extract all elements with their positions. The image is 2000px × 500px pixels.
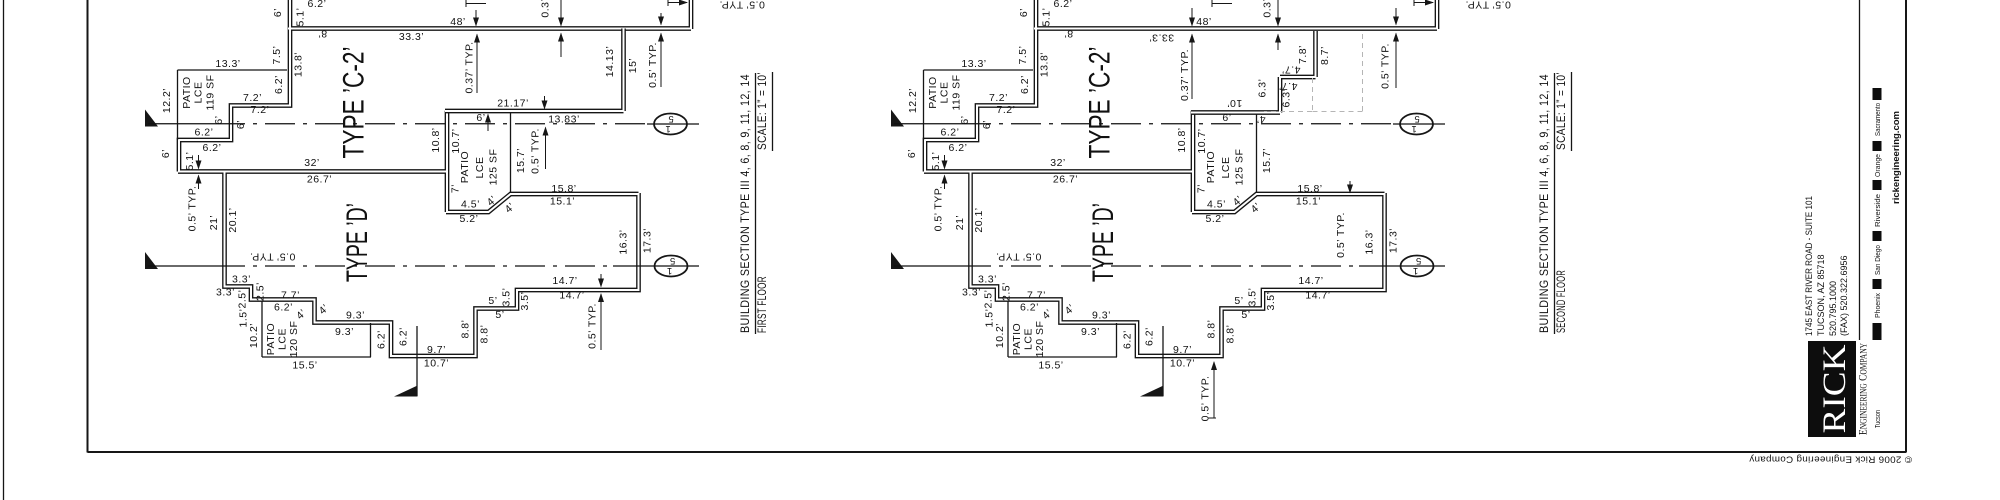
- svg-text:8’: 8’: [318, 27, 327, 39]
- drawing frame bottom border: [88, 451, 1907, 453]
- svg-text:4.5’: 4.5’: [461, 199, 480, 211]
- cities strip: [1873, 88, 1882, 100]
- inner box wall (first floor): [445, 29, 624, 112]
- svg-text:33.3’: 33.3’: [399, 31, 424, 43]
- second floor plan copy: [891, 0, 1511, 396]
- svg-text:0.37’: 0.37’: [1262, 0, 1274, 18]
- svg-text:32’: 32’: [304, 157, 320, 169]
- section bubble 5/1 (D): [655, 256, 688, 277]
- svg-text:520.795.1000: 520.795.1000: [1828, 281, 1838, 336]
- svg-text:10.8’: 10.8’: [430, 127, 442, 152]
- svg-text:48’: 48’: [450, 16, 466, 28]
- svg-text:10.2’: 10.2’: [248, 323, 260, 348]
- svg-text:6.2’: 6.2’: [376, 330, 388, 349]
- svg-text:0.5’ TYP.: 0.5’ TYP.: [1200, 376, 1212, 422]
- svg-text:15.8’: 15.8’: [551, 183, 576, 195]
- svg-text:15.5’: 15.5’: [292, 360, 317, 372]
- svg-text:9.3’: 9.3’: [346, 310, 365, 322]
- svg-text:6.2’: 6.2’: [195, 127, 214, 139]
- svg-text:4’: 4’: [1256, 113, 1265, 125]
- svg-text:LCE: LCE: [474, 157, 486, 179]
- svg-text:6.3’: 6.3’: [1281, 89, 1293, 108]
- second floor title: [1539, 72, 1572, 334]
- svg-text:13.83’: 13.83’: [548, 114, 580, 126]
- svg-text:Sacramento: Sacramento: [1873, 103, 1882, 136]
- drawing frame right border / title block edge: [1905, 0, 1907, 453]
- svg-text:7’: 7’: [450, 184, 462, 193]
- svg-text:0.37’ TYP.: 0.37’ TYP.: [464, 41, 476, 93]
- svg-text:5’: 5’: [495, 309, 504, 321]
- svg-text:Tucson: Tucson: [1873, 410, 1882, 428]
- section bubble 5/1 (C-2): [654, 114, 687, 135]
- svg-text:Orange: Orange: [1873, 154, 1882, 177]
- svg-text:15.1’: 15.1’: [550, 196, 575, 208]
- svg-text:© 2006 Rick Engineering Com: © 2006 Rick Engineering Company: [1749, 454, 1912, 465]
- top-right mini dim: [667, 0, 669, 6]
- svg-text:0.5’ TYP.: 0.5’ TYP.: [1335, 212, 1347, 258]
- svg-text:119 SF: 119 SF: [205, 74, 217, 110]
- drawing frame left border: [87, 0, 89, 453]
- svg-text:3.3’: 3.3’: [216, 287, 235, 299]
- centerline D: [145, 252, 158, 269]
- svg-text:TYPE ’C-2’: TYPE ’C-2’: [338, 47, 371, 159]
- svg-text:0.5’ TYP.: 0.5’ TYP.: [719, 0, 765, 10]
- svg-text:SCALE: 1” = 10’: SCALE: 1” = 10’: [1556, 72, 1568, 150]
- svg-text:6.2’: 6.2’: [274, 302, 293, 314]
- svg-text:0.5’ TYP.: 0.5’ TYP.: [647, 42, 659, 88]
- svg-text:FIRST FLOOR: FIRST FLOOR: [757, 276, 769, 333]
- svg-text:20.1’: 20.1’: [227, 207, 239, 232]
- svg-text:SCALE: 1” = 10’: SCALE: 1” = 10’: [757, 72, 769, 150]
- svg-text:0.5’ TYP.: 0.5’ TYP.: [530, 128, 542, 174]
- section cut line bottom with triangle: [416, 326, 418, 396]
- svg-text:3.3’: 3.3’: [232, 274, 251, 286]
- second floor stepped wall: [1191, 31, 1316, 113]
- svg-text:8.8’: 8.8’: [460, 320, 472, 339]
- svg-text:7.5’: 7.5’: [271, 46, 283, 65]
- building walls: [178, 0, 691, 356]
- svg-text:9.7’: 9.7’: [427, 344, 446, 356]
- svg-text:PATIO: PATIO: [265, 323, 277, 355]
- svg-text:15’: 15’: [627, 58, 639, 74]
- svg-text:13.8’: 13.8’: [293, 52, 305, 77]
- svg-text:6’: 6’: [476, 112, 485, 124]
- svg-text:13.3’: 13.3’: [215, 58, 240, 70]
- svg-text:6.2’: 6.2’: [398, 327, 410, 346]
- svg-text:33.3’: 33.3’: [1149, 31, 1174, 43]
- svg-text:8.8’: 8.8’: [479, 325, 491, 344]
- svg-text:PATIO: PATIO: [181, 76, 193, 108]
- svg-text:2.5’: 2.5’: [237, 290, 249, 309]
- svg-text:10.7’: 10.7’: [450, 128, 462, 153]
- svg-text:Riverside: Riverside: [1873, 194, 1882, 227]
- svg-text:7.2’: 7.2’: [243, 92, 262, 104]
- svg-text:14.7’: 14.7’: [552, 275, 577, 287]
- svg-text:6’: 6’: [272, 8, 284, 17]
- svg-text:17.3’: 17.3’: [642, 228, 654, 253]
- svg-text:8.7’: 8.7’: [1319, 46, 1331, 65]
- svg-text:PATIO: PATIO: [459, 151, 471, 183]
- svg-text:125 SF: 125 SF: [488, 149, 500, 186]
- first floor title: [740, 72, 773, 334]
- svg-text:3.5’: 3.5’: [501, 288, 513, 307]
- patio 120 SF boundary: [262, 302, 371, 358]
- svg-text:TYPE ’D’: TYPE ’D’: [341, 203, 374, 282]
- svg-text:9.3’: 9.3’: [335, 326, 354, 338]
- svg-text:0.5’ TYP.: 0.5’ TYP.: [587, 303, 599, 349]
- patio 119 SF boundary: [178, 70, 288, 140]
- svg-text:14.7’: 14.7’: [559, 290, 584, 302]
- svg-text:120 SF: 120 SF: [288, 321, 300, 358]
- svg-text:12.2’: 12.2’: [161, 88, 173, 113]
- svg-text:(FAX) 520.322.6956: (FAX) 520.322.6956: [1839, 255, 1849, 336]
- svg-text:SECOND FLOOR: SECOND FLOOR: [1556, 270, 1568, 333]
- svg-text:10’: 10’: [1227, 97, 1243, 109]
- svg-text:BUILDING SECTION TYPE III 4, 6: BUILDING SECTION TYPE III 4, 6, 8, 9, 11…: [1539, 74, 1551, 333]
- svg-text:San Diego: San Diego: [1873, 245, 1882, 275]
- svg-text:6.2’: 6.2’: [203, 142, 222, 154]
- svg-text:LCE: LCE: [277, 328, 289, 350]
- svg-text:LCE: LCE: [193, 82, 205, 104]
- svg-text:7.2’: 7.2’: [251, 104, 270, 116]
- svg-text:6’: 6’: [213, 115, 225, 124]
- svg-text:5.1’: 5.1’: [184, 152, 196, 171]
- svg-text:BUILDING SECTION TYPE III 4, 6: BUILDING SECTION TYPE III 4, 6, 8, 9, 11…: [740, 74, 752, 333]
- svg-text:2.5’: 2.5’: [255, 282, 267, 301]
- svg-text:6.2’: 6.2’: [273, 75, 285, 94]
- svg-text:16.3’: 16.3’: [618, 229, 630, 254]
- svg-text:14.13’: 14.13’: [604, 46, 616, 78]
- svg-text:10.7’: 10.7’: [424, 358, 449, 370]
- svg-text:6’: 6’: [235, 120, 247, 129]
- title block inner divider: [1859, 0, 1861, 340]
- svg-text:6.3’: 6.3’: [1257, 79, 1269, 98]
- svg-text:21.17’: 21.17’: [497, 98, 529, 110]
- demolished/overlay dashed outline: [1264, 34, 1363, 112]
- svg-text:5.2’: 5.2’: [460, 213, 479, 225]
- svg-text:26.7’: 26.7’: [307, 174, 332, 186]
- svg-text:6’: 6’: [160, 149, 172, 158]
- svg-text:Phoenix: Phoenix: [1873, 293, 1882, 318]
- svg-text:15.7’: 15.7’: [515, 148, 527, 173]
- svg-text:21’: 21’: [208, 215, 220, 231]
- svg-text:7.7’: 7.7’: [281, 290, 300, 302]
- svg-text:5.1’: 5.1’: [295, 8, 307, 27]
- svg-text:0.5’ TYP.: 0.5’ TYP.: [1380, 43, 1392, 89]
- svg-text:7.8’: 7.8’: [1297, 45, 1309, 64]
- 5.1 arrows at left step: [198, 155, 200, 169]
- bracket: [1212, 0, 1232, 7]
- svg-text:3.5’: 3.5’: [519, 292, 531, 311]
- svg-text:0.37’: 0.37’: [540, 0, 552, 18]
- svg-text:0.5’ TYP.: 0.5’ TYP.: [250, 250, 296, 262]
- svg-text:rickengineering.com: rickengineering.com: [1891, 111, 1901, 204]
- RICK logo box: [1808, 341, 1856, 437]
- svg-text:5’: 5’: [488, 295, 497, 307]
- svg-text:TUCSON, AZ 85718: TUCSON, AZ 85718: [1816, 254, 1826, 336]
- svg-text:RICK: RICK: [1817, 344, 1853, 433]
- svg-text:1: 1: [667, 265, 672, 276]
- svg-text:1745 EAST RIVER ROAD - SUITE 1: 1745 EAST RIVER ROAD - SUITE 101: [1804, 196, 1814, 336]
- svg-text:1: 1: [665, 123, 670, 134]
- svg-text:ENGINEERING COMPANY: ENGINEERING COMPANY: [1858, 343, 1870, 435]
- sheet edge line: [3, 0, 5, 500]
- svg-text:4.7’: 4.7’: [1282, 63, 1301, 75]
- patio 125 SF boundary: [510, 112, 512, 193]
- 48 bracket + arrow: [466, 0, 486, 7]
- svg-text:0.5’ TYP.: 0.5’ TYP.: [187, 186, 199, 232]
- svg-text:0.37’ TYP.: 0.37’ TYP.: [1179, 49, 1191, 101]
- svg-text:5: 5: [668, 113, 673, 124]
- svg-text:6.2’: 6.2’: [308, 0, 327, 10]
- centerline C-2: [145, 110, 158, 127]
- svg-text:5: 5: [670, 255, 675, 266]
